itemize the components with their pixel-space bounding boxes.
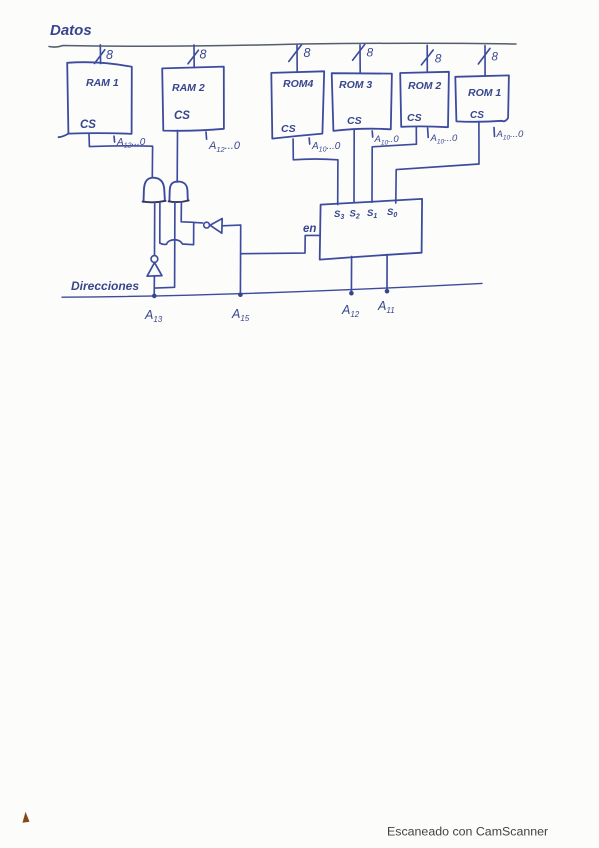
wire ROM1 data pin <box>484 46 486 76</box>
label A13 <box>144 308 163 324</box>
pin label CS (RAM2) <box>174 110 190 122</box>
wire U2 input A (down to node A13) <box>155 202 175 288</box>
label A12 <box>341 303 360 319</box>
value label 8 (ROM3 data width) <box>367 46 374 60</box>
wire decoder A11 pin to bus <box>386 255 388 292</box>
bus-width slash RAM2 pin <box>188 50 198 64</box>
svg-text:Datos: Datos <box>50 22 92 39</box>
memory ROM4 box <box>271 71 324 138</box>
wire ROM4 data pin <box>296 45 298 72</box>
label Direcciones (address bus name) <box>71 279 139 293</box>
bus-width slash ROM4 pin <box>289 45 302 62</box>
svg-text:ROM 2: ROM 2 <box>408 80 441 92</box>
label A12...0 (RAM1 address) <box>116 137 146 150</box>
bus-width slash ROM3 pin <box>353 44 365 60</box>
bus-width slash ROM2 pin <box>421 50 433 65</box>
page corner mark <box>23 812 30 823</box>
label A15 <box>231 307 250 323</box>
wire decoder A12 pin to bus <box>350 256 352 294</box>
and-gate U1 (RAM1 select) <box>144 178 165 202</box>
value label 8 (RAM2 data width) <box>200 48 207 62</box>
wire RAM1 CS to AND gate U1 output <box>89 134 153 178</box>
junction node A12 <box>349 291 354 296</box>
wire RAM2 CS to AND gate U2 output <box>176 131 178 183</box>
label A10...0 (ROM2 address) <box>430 133 458 146</box>
pin label CS (ROM1) <box>470 110 484 121</box>
svg-text:Escaneado con CamScanner: Escaneado con CamScanner <box>387 825 548 839</box>
wire ROM2 data pin <box>426 45 428 72</box>
label A10...0 (ROM1 address) <box>496 129 524 142</box>
svg-text:RAM 1: RAM 1 <box>86 77 119 89</box>
decoder U5 box <box>320 199 422 260</box>
memory ROM1 box <box>455 75 509 121</box>
junction node A15 <box>238 292 243 297</box>
svg-text:A10...0: A10...0 <box>430 133 458 146</box>
label A10..0 (ROM3 address) <box>374 134 400 147</box>
svg-text:Direcciones: Direcciones <box>71 279 139 293</box>
wire U4 input from A15 vertical <box>222 224 241 227</box>
memory RAM2 box <box>162 67 224 131</box>
bus-width slash RAM1 pin <box>95 50 105 64</box>
value label 8 (ROM4 data width) <box>304 46 311 60</box>
inverter U3 (A13 inverter, output bubble up) <box>151 256 158 263</box>
svg-text:A12...0: A12...0 <box>116 137 146 150</box>
pin label S1 <box>367 208 377 220</box>
svg-text:CS: CS <box>347 115 362 127</box>
svg-text:8: 8 <box>106 48 113 62</box>
address tick ROM3 <box>371 131 374 137</box>
svg-text:RAM 2: RAM 2 <box>172 82 205 94</box>
svg-text:8: 8 <box>200 48 207 62</box>
svg-text:CS: CS <box>407 112 422 124</box>
svg-text:A12...0: A12...0 <box>208 140 241 154</box>
address tick RAM2 <box>205 132 208 139</box>
wire RAM1 data pin <box>99 45 101 64</box>
address tick ROM1 <box>493 127 496 136</box>
svg-text:8: 8 <box>304 46 311 60</box>
pin label CS (ROM2) <box>407 112 422 124</box>
svg-text:ROM 3: ROM 3 <box>339 79 372 91</box>
label ROM4 <box>283 78 313 90</box>
and-gate U2 (RAM2 select) <box>169 182 187 202</box>
data bus wire Datos <box>49 43 516 47</box>
svg-text:8: 8 <box>367 46 374 60</box>
pin label CS (ROM4) <box>281 123 296 135</box>
memory RAM1 box <box>59 62 132 137</box>
label ROM 2 <box>408 80 441 92</box>
wire EN branch (A15 to decoder EN) <box>241 235 320 253</box>
bus-width slash ROM1 pin <box>478 48 490 64</box>
wire A15 net vertical to bus node <box>239 225 241 295</box>
wire ROM3 CS to decoder S2 <box>353 130 355 203</box>
wire NOT-A15 net (inverter U4 output to U1.B with hop over U2.A) <box>160 222 203 244</box>
wire RAM2 data pin <box>193 45 195 68</box>
pin label CS (RAM1) <box>80 119 96 131</box>
svg-text:A10...0: A10...0 <box>496 129 524 142</box>
svg-text:en: en <box>303 223 316 235</box>
address bus wire Direcciones <box>62 283 482 297</box>
label A11 <box>377 299 395 315</box>
wire ROM4 CS to decoder S3 <box>293 139 338 205</box>
label RAM 1 <box>86 77 119 89</box>
pin label CS (ROM3) <box>347 115 362 127</box>
junction node A11 <box>385 289 390 294</box>
pin label S0 <box>387 207 397 219</box>
wire U2 input B (to inverter U3 output) <box>181 202 193 222</box>
svg-text:CS: CS <box>470 110 484 121</box>
wire U3 input from node A13 <box>153 276 155 296</box>
svg-text:CS: CS <box>80 119 96 131</box>
junction node A13 <box>152 294 157 299</box>
label Datos (bus name) <box>50 22 92 39</box>
pin label S2 <box>350 209 360 221</box>
wire U1 input B (down to NOT-A15 net) <box>159 202 161 243</box>
svg-text:ROM4: ROM4 <box>283 78 313 90</box>
label A10...0 (ROM4 address) <box>311 141 341 154</box>
address tick ROM4 <box>308 138 311 144</box>
svg-text:CS: CS <box>281 123 296 135</box>
label ROM 3 <box>339 79 372 91</box>
label ROM 1 <box>468 87 501 99</box>
memory ROM2 box <box>400 72 449 127</box>
wire ROM1 CS to decoder S0 <box>396 122 479 203</box>
svg-text:8: 8 <box>435 52 442 66</box>
memory ROM3 box <box>332 73 392 131</box>
label RAM 2 <box>172 82 205 94</box>
svg-text:8: 8 <box>492 52 499 64</box>
value label 8 (ROM1 data width) <box>492 52 499 64</box>
inverter U4 (A15 inverter, pointing left) <box>204 222 210 228</box>
wire ROM3 data pin <box>359 45 361 73</box>
wire U1 input A (to inverter U3 output) <box>154 203 156 256</box>
address tick RAM1 <box>113 136 116 142</box>
address tick ROM2 <box>427 128 430 137</box>
svg-text:CS: CS <box>174 110 190 122</box>
value label 8 (ROM2 data width) <box>435 52 442 66</box>
value label 8 (RAM1 data width) <box>106 48 113 62</box>
label A12...0 (RAM2 address) <box>208 140 241 154</box>
pin label S3 <box>334 209 344 221</box>
pin label EN (decoder enable) <box>303 223 316 235</box>
wire ROM2 CS to decoder S1 <box>372 127 416 203</box>
svg-text:A10...0: A10...0 <box>311 141 341 154</box>
svg-text:ROM 1: ROM 1 <box>468 87 501 99</box>
